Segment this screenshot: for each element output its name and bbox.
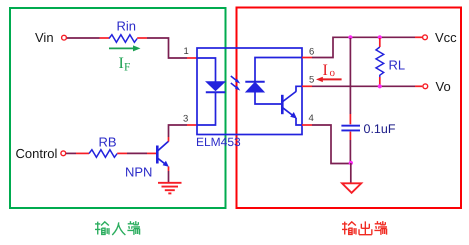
- wire RB to Q1 base: [117, 152, 156, 154]
- wire Q2 emitter to pin 4: [296, 118, 302, 125]
- title 输出端 (red, drawn strokes): [342, 221, 387, 235]
- resistor RL: [376, 47, 384, 77]
- svg-text:4: 4: [309, 113, 314, 124]
- svg-text:F: F: [124, 62, 130, 74]
- pin number 6: [309, 47, 314, 58]
- title 输入端 (green, drawn strokes): [95, 221, 140, 235]
- label Control: [16, 146, 58, 161]
- ground GND2 (power ground triangle): [342, 183, 361, 193]
- label Vcc: [435, 30, 457, 45]
- svg-text:3: 3: [183, 114, 188, 125]
- capacitor C1: [341, 125, 360, 132]
- wire junction to ground GND2: [350, 163, 352, 183]
- wire Rin to opto pin 1: [137, 38, 197, 58]
- svg-text:I: I: [323, 62, 328, 79]
- wire pin 4 down to ground junction: [302, 125, 350, 164]
- char 输: [95, 222, 109, 235]
- svg-text:ELM453: ELM453: [196, 135, 241, 149]
- light arrow 1: [231, 76, 241, 84]
- phototransistor Q2: [282, 92, 297, 119]
- svg-text:RB: RB: [99, 135, 117, 150]
- label Vin: [35, 30, 54, 45]
- photodiode D2 anode wire to Q2 base: [255, 92, 282, 104]
- current label Io: [323, 62, 336, 79]
- char 端: [127, 221, 140, 235]
- terminal Vcc: [423, 35, 428, 40]
- svg-text:RL: RL: [389, 58, 406, 73]
- svg-text:1: 1: [184, 46, 189, 57]
- value label Rin: [117, 19, 137, 34]
- svg-text:5: 5: [309, 74, 314, 85]
- char 输: [342, 222, 356, 235]
- terminal Vin: [62, 35, 67, 40]
- svg-text:Rin: Rin: [117, 19, 137, 34]
- wire Control to RB: [66, 152, 89, 154]
- resistor Rin: [109, 35, 137, 43]
- wire Vin terminal to Rin: [67, 37, 110, 39]
- svg-text:Vo: Vo: [436, 79, 451, 94]
- LED D1 anode wire: [197, 58, 216, 82]
- current label IF: [119, 55, 131, 74]
- wire Q1 emitter to ground: [168, 167, 170, 183]
- part label ELM453: [196, 135, 241, 149]
- photodiode D2: [245, 82, 264, 92]
- pin number 5: [309, 74, 314, 85]
- junction dot Vcc/cap: [348, 35, 352, 39]
- pin number 1: [184, 46, 189, 57]
- svg-text:NPN: NPN: [125, 165, 152, 180]
- resistor RL pin stubs: [379, 38, 381, 86]
- terminal Control: [61, 151, 66, 156]
- svg-text:Vin: Vin: [35, 30, 54, 45]
- junction dot Vcc/RL: [378, 35, 382, 39]
- LED D1: [206, 82, 225, 92]
- value label RB: [99, 135, 117, 150]
- svg-text:Control: Control: [16, 146, 58, 161]
- LED D1 cathode wire to pin 3: [197, 92, 216, 125]
- wire Vcc rail down to capacitor: [349, 38, 351, 124]
- wire Q1 collector to opto pin 3: [169, 125, 198, 142]
- pin number 3: [183, 114, 188, 125]
- wire pin 6 to Vcc rail: [302, 37, 422, 57]
- ground GND1 (earth bars): [158, 183, 182, 194]
- wire capacitor to ground junction: [349, 132, 351, 163]
- char 入: [112, 222, 125, 235]
- pin number 4: [309, 113, 314, 124]
- input-side boundary box (green): [10, 8, 226, 208]
- output-side boundary box (red): [237, 8, 462, 209]
- svg-text:6: 6: [309, 47, 314, 58]
- transistor Q1 NPN: [157, 141, 169, 167]
- value label 0.1uF: [364, 122, 396, 136]
- char 出: [359, 221, 372, 234]
- junction dot RL/Vo: [378, 84, 382, 88]
- current arrow IF: [109, 45, 141, 51]
- photodiode D2 cathode wire from pin 6: [255, 58, 302, 83]
- wire pin 5 to Vo: [302, 85, 422, 87]
- junction dot cap/pin4/ground: [349, 161, 353, 165]
- svg-text:Vcc: Vcc: [435, 30, 457, 45]
- wire Q2 collector to pin 5: [296, 86, 302, 92]
- svg-text:o: o: [330, 67, 336, 79]
- svg-text:0.1uF: 0.1uF: [364, 122, 396, 136]
- label Vo: [436, 79, 451, 94]
- resistor RB: [89, 150, 117, 158]
- value label RL: [389, 58, 406, 73]
- label NPN: [125, 165, 152, 180]
- current arrow Io: [316, 77, 342, 82]
- char 端: [374, 221, 387, 235]
- light arrow 2: [231, 83, 241, 91]
- optocoupler U1 body box: [197, 48, 302, 135]
- terminal Vo: [423, 84, 428, 89]
